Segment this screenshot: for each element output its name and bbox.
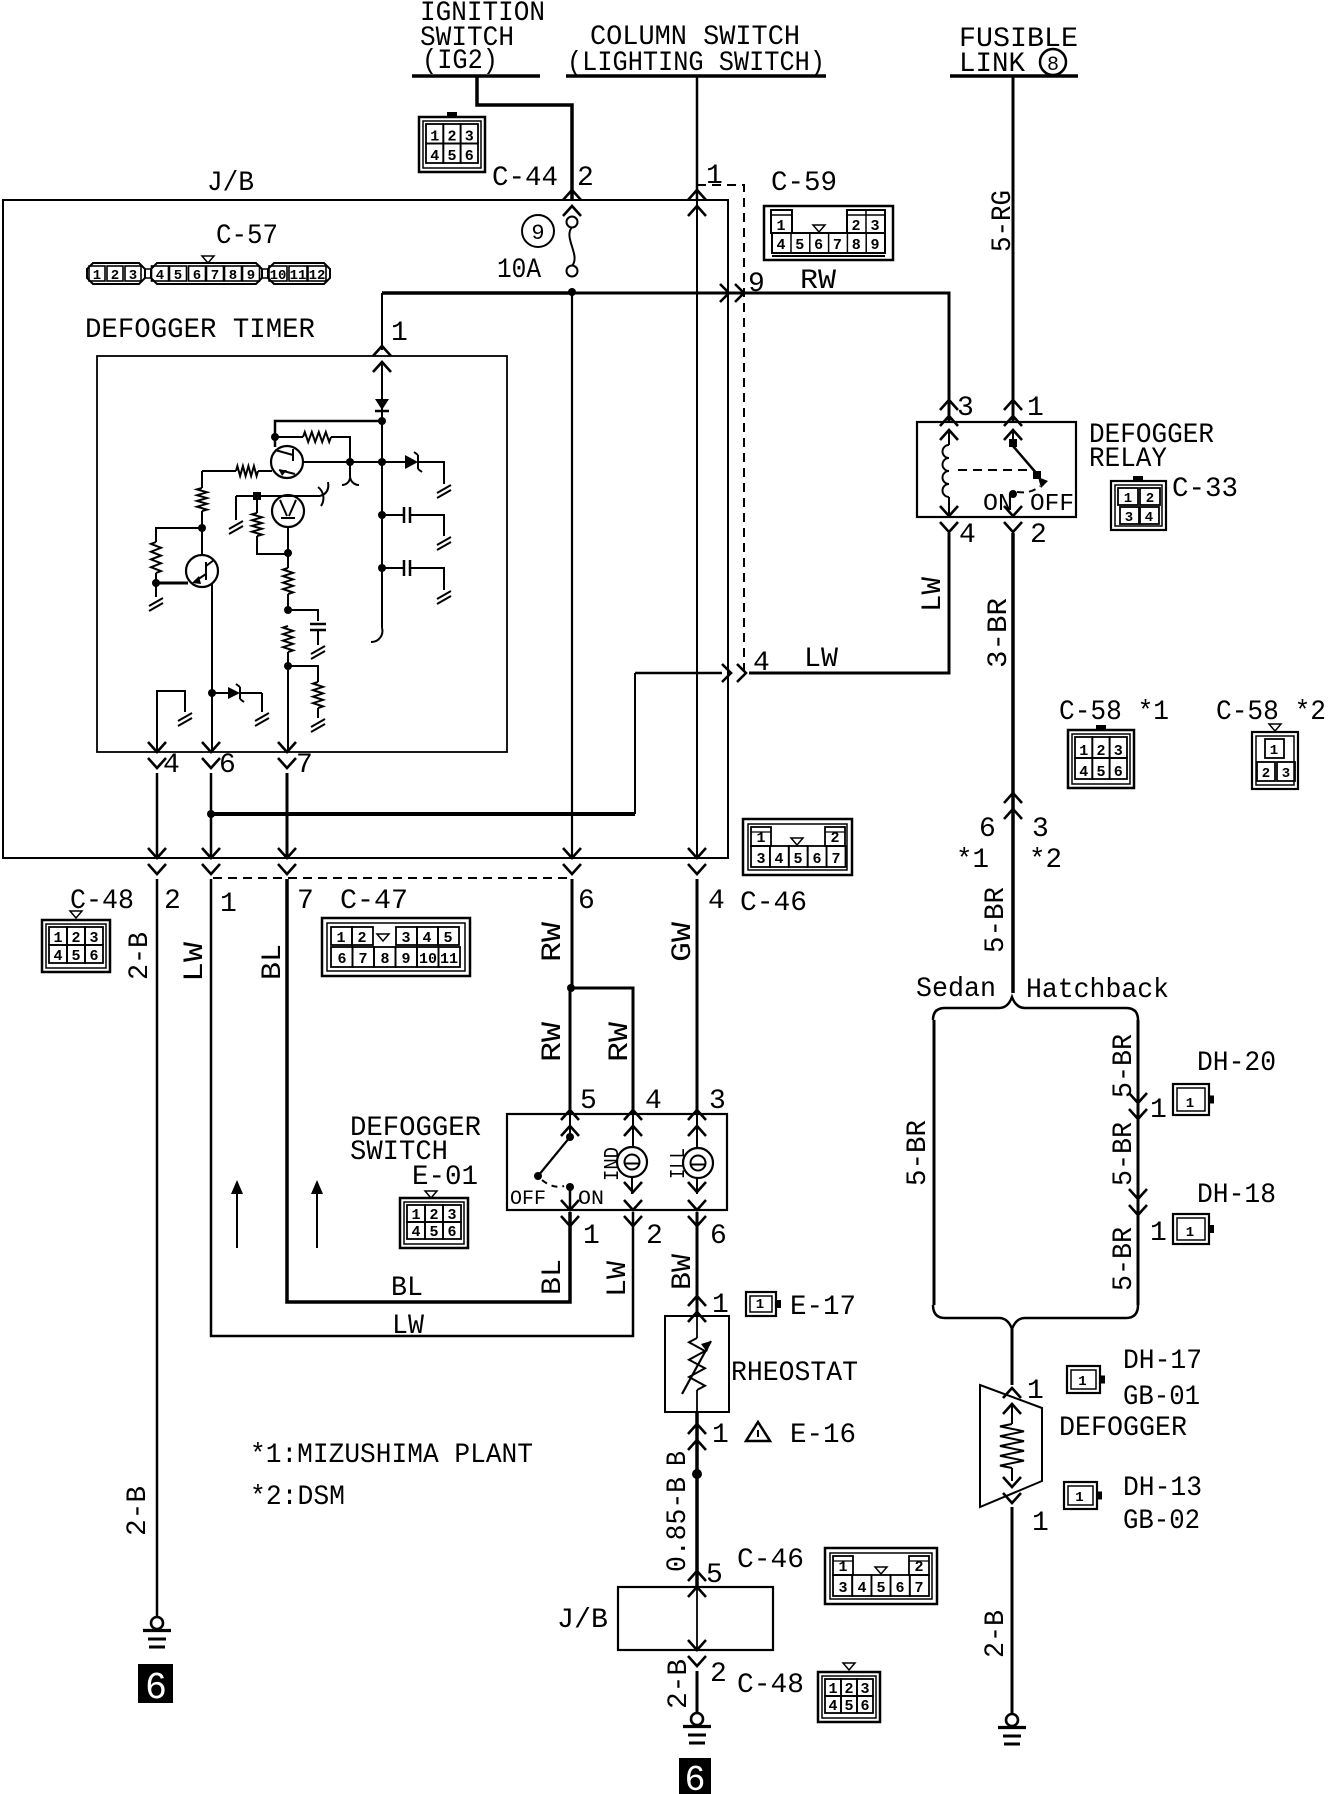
svg-text:5: 5	[1096, 764, 1105, 781]
svg-text:B: B	[663, 1451, 694, 1466]
switch pin 1 arrows	[569, 1187, 572, 1211]
svg-text:6: 6	[979, 814, 996, 845]
defogger timer box	[97, 356, 507, 752]
ground inside timer at D2	[437, 485, 451, 498]
node Q3 base square	[253, 492, 261, 500]
svg-text:J/B: J/B	[557, 1605, 608, 1636]
svg-text:4: 4	[857, 1580, 866, 1597]
svg-text:9: 9	[748, 269, 765, 300]
svg-text:9: 9	[247, 268, 255, 284]
node RW split	[567, 984, 575, 992]
wire R4 node to Q2 base	[156, 582, 188, 585]
relay pin 3 arrows	[940, 400, 958, 426]
node fuse output junction	[568, 288, 576, 296]
relay contact arm to OFF	[1013, 446, 1037, 474]
ground inside timer at R4	[155, 583, 157, 597]
junction arrows at E-16	[688, 1424, 706, 1450]
svg-text:5: 5	[793, 851, 802, 868]
svg-text:8: 8	[380, 951, 389, 968]
svg-text:6: 6	[337, 951, 346, 968]
svg-text:8: 8	[852, 237, 861, 254]
svg-text:3: 3	[838, 1580, 847, 1597]
svg-text:IND: IND	[602, 1147, 625, 1181]
svg-text:*1: *1	[956, 845, 989, 876]
svg-text:E-16: E-16	[790, 1420, 856, 1451]
svg-text:3: 3	[1032, 814, 1049, 845]
svg-text:2: 2	[111, 268, 119, 284]
svg-text:6: 6	[710, 1221, 727, 1252]
connector C-58 *1	[1068, 730, 1134, 788]
resistor R8 to ground	[288, 666, 318, 682]
junction arrows on 3-BR at C-58	[1004, 793, 1022, 819]
svg-text:2: 2	[710, 1659, 727, 1690]
svg-text:2: 2	[1146, 491, 1154, 507]
junction arrows at E-17	[688, 1296, 706, 1322]
ground inside timer at C4	[317, 630, 319, 645]
svg-text:C-48: C-48	[70, 886, 134, 917]
wire R2 to R3	[201, 471, 203, 488]
svg-text:RHEOSTAT: RHEOSTAT	[731, 1358, 858, 1389]
svg-text:1: 1	[712, 1420, 729, 1451]
svg-text:1: 1	[220, 889, 237, 920]
transistor Q2	[186, 555, 218, 587]
wire node to R4	[156, 528, 202, 542]
svg-text:12: 12	[309, 268, 326, 284]
capacitor C2 on bus C	[382, 514, 404, 516]
svg-text:5-BR: 5-BR	[1109, 1122, 1140, 1186]
svg-text:9: 9	[531, 221, 544, 246]
junction arrows into J/B at C-44	[563, 190, 581, 216]
svg-text:*1:MIZUSHIMA PLANT: *1:MIZUSHIMA PLANT	[250, 1440, 533, 1471]
svg-text:RW: RW	[605, 1022, 636, 1062]
svg-text:1: 1	[1270, 743, 1278, 759]
connector C-48 bottom	[818, 1672, 880, 1722]
node timer bus D	[378, 564, 386, 572]
svg-text:LW: LW	[603, 1261, 634, 1297]
svg-text:3: 3	[709, 1086, 726, 1117]
node timer bus C	[378, 511, 386, 519]
svg-text:5-BR: 5-BR	[981, 887, 1012, 953]
svg-text:4: 4	[828, 1698, 837, 1715]
resistor R5 divider	[256, 496, 258, 513]
diode D1 in timer	[375, 399, 389, 410]
svg-text:DH-20: DH-20	[1197, 1048, 1276, 1079]
connector DH-20 icon	[1173, 1084, 1209, 1115]
wire BW switch pin 6 to rheostat	[696, 1212, 699, 1316]
page reference 6 bottom	[679, 1758, 711, 1794]
switch pin 3 arrows	[688, 1110, 706, 1136]
svg-text:6: 6	[219, 750, 236, 781]
ground inside timer at C3	[437, 591, 451, 604]
svg-text:6: 6	[1114, 764, 1123, 781]
svg-text:3: 3	[129, 268, 137, 284]
svg-text:8: 8	[229, 268, 237, 284]
wire ignition switch to C-44 pin 2	[477, 76, 572, 200]
svg-text:4: 4	[1145, 510, 1153, 526]
defogger rear window element	[980, 1385, 1042, 1507]
junction arrows RW exits J/B at C-59 pin 9	[720, 284, 744, 302]
svg-text:8: 8	[1047, 54, 1059, 77]
switch contact	[566, 1133, 574, 1141]
connector C-47	[322, 918, 470, 976]
timer pin 6 arrows and label	[202, 742, 220, 768]
terminal hook below Q1 collector	[350, 462, 359, 485]
node Q1 emitter top	[271, 433, 279, 441]
node timer bus B	[378, 458, 386, 466]
svg-text:5-RG: 5-RG	[988, 190, 1019, 252]
svg-text:C-48: C-48	[737, 1670, 804, 1701]
svg-text:BL: BL	[538, 1259, 569, 1295]
svg-text:5: 5	[174, 268, 182, 284]
wire timer pin 7 to C-47 pin 7	[286, 773, 289, 858]
svg-text:6: 6	[193, 268, 201, 284]
wire Q1 collector to bus B	[303, 461, 382, 463]
junction arrows at defogger pin 1 bottom	[1003, 1477, 1021, 1503]
node H	[284, 662, 292, 670]
junction arrows wire exits J/B at x=211	[202, 848, 220, 874]
wire hatchback branch 5-BR	[1137, 1020, 1140, 1305]
connector DH-13 icon	[1064, 1482, 1097, 1509]
connector DH-17 icon	[1067, 1366, 1100, 1393]
defogger relay box	[917, 422, 1076, 517]
rheostat symbol	[696, 1316, 698, 1338]
svg-text:6: 6	[812, 851, 821, 868]
svg-text:2-B: 2-B	[125, 932, 156, 980]
connector C-57	[87, 263, 145, 284]
ground left	[151, 1617, 163, 1629]
timer pin 4 arrows and label	[148, 742, 166, 768]
svg-text:6: 6	[895, 1580, 904, 1597]
junction arrows LW exits J/B at C-59 pin 4	[722, 664, 746, 682]
resistor R4	[151, 542, 161, 573]
svg-text:DH-17: DH-17	[1123, 1346, 1202, 1377]
switch pin 2 arrows	[624, 1182, 642, 1192]
terminal hook at timer bus bottom	[371, 628, 382, 642]
svg-text:9: 9	[401, 951, 410, 968]
svg-text:C-46: C-46	[740, 888, 807, 919]
capacitor C3 on bus D	[382, 567, 404, 569]
svg-text:3-BR: 3-BR	[984, 598, 1015, 668]
wire Q3 base rail	[236, 495, 320, 497]
svg-text:ON: ON	[983, 491, 1013, 518]
wire through bottom J/B	[696, 1587, 698, 1650]
svg-text:*2: *2	[1029, 845, 1062, 876]
svg-text:2: 2	[357, 930, 366, 947]
wire timer pin 4 to internal ground	[157, 691, 185, 752]
svg-text:GB-02: GB-02	[1123, 1506, 1200, 1537]
wire LW C-47 pin1 to switch pin 2	[211, 879, 633, 1336]
svg-text:5: 5	[876, 1580, 885, 1597]
svg-text:C-58 *1: C-58 *1	[1059, 697, 1169, 728]
svg-text:3: 3	[1125, 510, 1133, 526]
ground inside timer at pin 4 branch	[178, 713, 192, 726]
junction arrows wire exits J/B at x=697	[688, 848, 706, 874]
svg-text:J/B: J/B	[207, 168, 254, 199]
zener diode D3	[212, 692, 228, 694]
node LW branch junction	[207, 810, 215, 818]
svg-text:7: 7	[833, 237, 842, 254]
connector C-33	[1111, 481, 1166, 530]
svg-text:2: 2	[164, 886, 181, 917]
wire GW through J/B	[696, 200, 698, 858]
wire Q3 emitter down	[287, 527, 289, 553]
svg-text:5: 5	[71, 948, 80, 965]
wire LW branch inside J/B to relay	[211, 812, 635, 816]
svg-text:6: 6	[685, 1760, 706, 1794]
connector C-47 dashed grouping line	[213, 877, 570, 879]
svg-text:DEFOGGER: DEFOGGER	[1059, 1413, 1187, 1444]
resistor R6	[287, 553, 289, 568]
svg-text:E-01: E-01	[412, 1162, 478, 1193]
svg-text:GB-01: GB-01	[1123, 1382, 1200, 1413]
svg-text:OFF: OFF	[510, 1188, 546, 1211]
indicator lamp IND	[632, 1114, 634, 1148]
svg-text:1: 1	[1032, 1508, 1049, 1539]
connector C-58 *2	[1252, 732, 1298, 789]
svg-text:1: 1	[756, 1297, 764, 1313]
svg-text:2-B: 2-B	[123, 1486, 154, 1536]
svg-text:5-BR: 5-BR	[1109, 1034, 1140, 1098]
node G	[284, 606, 292, 614]
fuse 10A symbol	[567, 217, 578, 228]
fuse 9 circled number	[522, 215, 554, 247]
svg-text:5-BR: 5-BR	[1109, 1227, 1140, 1291]
junction block J/B bottom	[618, 1587, 773, 1650]
relay pin 1 arrows	[1004, 400, 1022, 426]
junction arrows wire exits J/B at x=287	[278, 848, 296, 874]
svg-text:6: 6	[89, 948, 98, 965]
svg-text:6: 6	[860, 1698, 869, 1715]
svg-text:DH-18: DH-18	[1197, 1180, 1276, 1211]
svg-text:LW: LW	[918, 577, 949, 612]
wire sedan branch 5-BR	[933, 1020, 936, 1305]
svg-text:C-59: C-59	[771, 168, 837, 199]
wire 0.85-B rheostat to J/B	[695, 1412, 699, 1587]
ground inside timer left of Q3	[235, 496, 237, 520]
wire Q2 emitter down to node E	[211, 584, 213, 693]
svg-text:1: 1	[1150, 1218, 1167, 1249]
defogger switch box	[507, 1114, 727, 1210]
relay pin 2 arrows	[1004, 506, 1022, 532]
svg-text:5: 5	[844, 1698, 853, 1715]
svg-text:4: 4	[1079, 764, 1088, 781]
svg-text:0.85-B: 0.85-B	[663, 1477, 694, 1572]
svg-text:RW: RW	[538, 1022, 569, 1062]
connector E-17 icon	[746, 1292, 776, 1316]
svg-text:BW: BW	[668, 1254, 699, 1290]
wire timer pin 6 to C-47 pin 1	[210, 773, 213, 858]
wire GW C-46 pin4 to switch pin 3	[696, 879, 699, 1114]
switch pin 5 arrows	[561, 1110, 579, 1136]
junction arrows wire exits J/B at x=157	[148, 848, 166, 874]
svg-text:9: 9	[870, 237, 879, 254]
svg-text:3: 3	[401, 930, 410, 947]
svg-text:1: 1	[1124, 491, 1132, 507]
rheostat box	[665, 1316, 729, 1412]
ground inside timer at C2	[437, 537, 451, 550]
resistor R3	[197, 488, 207, 511]
page reference 6 left	[138, 1664, 173, 1703]
node R3 bottom	[198, 524, 206, 532]
connector C-44	[419, 117, 485, 172]
wire RW C-47 pin6 down	[571, 879, 574, 988]
node E	[208, 689, 216, 697]
svg-text:3: 3	[1282, 766, 1290, 782]
terminal hook right of Q3	[320, 482, 328, 496]
wire 2-B C-48 pin2 to ground	[156, 879, 159, 1617]
svg-text:7: 7	[358, 951, 367, 968]
relay pin 4 arrows	[940, 506, 958, 532]
ground middle	[691, 1713, 703, 1725]
connector C-46	[743, 819, 852, 875]
svg-text:1: 1	[391, 318, 408, 349]
node F	[284, 549, 292, 557]
svg-text:LW: LW	[804, 644, 838, 675]
relay coil	[948, 431, 950, 445]
svg-text:5: 5	[580, 1086, 597, 1117]
svg-text:GW: GW	[668, 922, 699, 962]
svg-text:11: 11	[290, 268, 307, 284]
svg-text:5-BR: 5-BR	[903, 1120, 934, 1186]
connector C-46 bottom	[825, 1548, 937, 1604]
svg-text:C-33: C-33	[1172, 474, 1238, 505]
timer pin 7 arrows and label	[278, 742, 296, 768]
zener diode D2 on bus B	[382, 461, 405, 463]
wire column switch down (GW)	[696, 76, 699, 200]
svg-text:6: 6	[145, 1667, 167, 1710]
marker triangle on C-57	[202, 256, 214, 263]
svg-text:2: 2	[1030, 520, 1047, 551]
junction arrows at DH-20	[1129, 1093, 1147, 1119]
transistor Q3	[272, 495, 304, 527]
svg-text:4: 4	[776, 237, 785, 254]
svg-text:4: 4	[53, 948, 62, 965]
svg-text:LW: LW	[180, 942, 211, 982]
svg-text:6: 6	[465, 148, 474, 165]
svg-text:4: 4	[411, 1224, 420, 1241]
svg-text:4: 4	[774, 851, 783, 868]
wire RW feed down through J/B to C-47 pin 6	[571, 292, 573, 858]
svg-text:1: 1	[706, 161, 723, 192]
svg-text:1: 1	[1186, 1096, 1194, 1112]
svg-text:1: 1	[1150, 1095, 1167, 1126]
svg-text:4: 4	[156, 268, 164, 284]
svg-text:DEFOGGER TIMER: DEFOGGER TIMER	[85, 315, 315, 346]
wire from fuse junction to defogger timer pin 1	[382, 291, 570, 295]
ground right	[1006, 1714, 1018, 1726]
svg-text:C-47: C-47	[340, 886, 408, 917]
ground triangle icon E-16	[746, 1422, 770, 1441]
wire 2-B to ground middle	[696, 1671, 699, 1713]
pin 1 of defogger timer with arrows	[373, 346, 391, 372]
wire RW branch to switch pin 4	[571, 988, 633, 1114]
svg-text:3: 3	[756, 851, 765, 868]
svg-text:5: 5	[443, 930, 452, 947]
direction arrow up right	[316, 1188, 318, 1248]
ground inside timer at R8	[311, 719, 325, 732]
svg-text:2: 2	[577, 163, 594, 194]
svg-text:4: 4	[645, 1086, 662, 1117]
svg-text:6: 6	[578, 886, 595, 917]
svg-text:6: 6	[447, 1224, 456, 1241]
svg-text:1: 1	[336, 930, 345, 947]
svg-text:6: 6	[814, 237, 823, 254]
svg-text:LW: LW	[392, 1311, 424, 1342]
svg-text:1: 1	[1078, 1374, 1086, 1390]
svg-text:1: 1	[1027, 393, 1044, 424]
switch pin 6 arrows	[688, 1182, 706, 1192]
wire timer pin 4 to C-48 pin 2	[156, 773, 159, 858]
connector E-01	[400, 1198, 468, 1248]
svg-text:1: 1	[1186, 1225, 1194, 1241]
svg-text:4: 4	[959, 520, 976, 551]
svg-text:RELAY: RELAY	[1089, 444, 1167, 475]
connector C-48	[42, 920, 110, 972]
svg-text:1: 1	[583, 1221, 600, 1252]
svg-text:2-B: 2-B	[664, 1659, 695, 1709]
svg-text:ON: ON	[578, 1188, 604, 1211]
svg-text:2-B: 2-B	[981, 1610, 1012, 1658]
wire bus A to Q1 emitter	[275, 421, 382, 447]
svg-text:BL: BL	[391, 1273, 423, 1304]
node R4 bottom	[152, 579, 160, 587]
svg-text:RW: RW	[800, 266, 836, 297]
brace bottom of body split	[933, 1305, 1138, 1329]
junction block J/B	[3, 200, 728, 858]
illumination lamp ILL	[696, 1114, 698, 1149]
svg-text:5: 5	[429, 1224, 438, 1241]
resistor R2 Q1 base	[258, 470, 272, 472]
svg-text:11: 11	[440, 951, 458, 968]
wire timer pin 1 internal bus	[381, 362, 383, 628]
wire node E to timer pin 6	[211, 693, 213, 752]
svg-text:5: 5	[447, 148, 456, 165]
junction arrows wire exits J/B at x=572	[563, 848, 581, 874]
svg-text:2: 2	[1262, 766, 1270, 782]
junction arrows at DH-18	[1129, 1189, 1147, 1215]
switch pin 4 arrows	[624, 1110, 642, 1136]
wire BL C-47 pin7 to switch pin 1	[287, 879, 570, 1302]
brace top of body split	[933, 997, 1138, 1020]
junction arrows into bottom J/B	[688, 1571, 706, 1597]
svg-text:4: 4	[163, 750, 180, 781]
svg-text:1: 1	[1075, 1490, 1083, 1506]
connector DH-18 icon	[1173, 1214, 1209, 1244]
defogger heater grid resistor	[1011, 1404, 1013, 1424]
svg-text:(IG2): (IG2)	[422, 46, 498, 77]
resistor R7	[283, 626, 293, 652]
wire RW from fuse junction to defogger relay pin 3	[572, 293, 949, 422]
svg-text:DH-13: DH-13	[1123, 1473, 1202, 1504]
svg-text:2: 2	[646, 1221, 663, 1252]
svg-text:*2:DSM: *2:DSM	[250, 1482, 345, 1513]
svg-text:7: 7	[914, 1580, 923, 1597]
svg-text:10: 10	[270, 268, 287, 284]
svg-text:7: 7	[296, 750, 313, 781]
wire 5-RG fusible link to relay pin 1	[1012, 76, 1015, 422]
svg-text:10A: 10A	[497, 255, 541, 286]
svg-text:5: 5	[795, 237, 804, 254]
node splice on 0.85-B	[692, 1469, 702, 1479]
svg-text:BL: BL	[258, 944, 289, 980]
node timer bus A	[378, 417, 386, 425]
relay coil to contact dashed link	[958, 469, 1030, 471]
svg-text:4: 4	[422, 930, 431, 947]
ground inside timer at D3	[261, 693, 263, 712]
svg-text:4: 4	[430, 148, 439, 165]
svg-text:Sedan: Sedan	[916, 974, 996, 1005]
connector C-59	[764, 206, 893, 260]
